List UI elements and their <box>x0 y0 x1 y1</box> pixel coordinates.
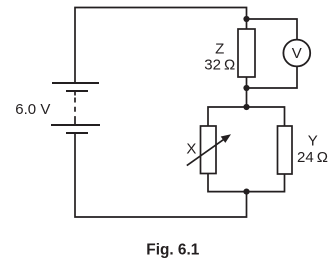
battery cell 2 short plate <box>66 132 88 134</box>
wire voltmeter bottom branch <box>247 66 298 88</box>
node junction dot voltmeter bottom <box>243 85 249 91</box>
battery cell 2 long plate <box>51 124 100 126</box>
svg-text:Y: Y <box>308 133 318 150</box>
wire junction to bottom rail <box>75 134 247 218</box>
svg-text:6.0 V: 6.0 V <box>15 101 50 118</box>
resistor Z <box>238 29 255 77</box>
svg-text:Z: Z <box>215 40 224 57</box>
battery cell 1 long plate <box>52 82 99 84</box>
svg-text:32 Ω: 32 Ω <box>204 57 235 74</box>
wire top rail <box>75 8 247 84</box>
node junction dot parallel bottom <box>243 189 249 195</box>
battery B1 6.0 V <box>51 83 100 133</box>
wire Z to parallel section <box>246 77 248 107</box>
svg-text:Fig. 6.1: Fig. 6.1 <box>146 242 199 259</box>
voltmeter V1 <box>283 40 310 67</box>
node junction dot parallel top <box>243 104 249 110</box>
wire voltmeter top branch <box>247 19 298 40</box>
wire parallel bottom rail <box>208 174 285 192</box>
battery dashed link <box>74 98 76 121</box>
node junction dot top <box>243 16 249 22</box>
variable resistor arrow <box>187 134 231 165</box>
battery cell 1 short plate <box>66 90 88 92</box>
battery cell link tick top <box>74 91 76 96</box>
svg-text:V: V <box>292 45 302 62</box>
battery cell link tick bottom <box>74 120 76 125</box>
svg-text:24 Ω: 24 Ω <box>297 149 328 166</box>
svg-text:X: X <box>186 140 196 157</box>
wire parallel top rail <box>208 107 285 126</box>
resistor X (variable) <box>201 126 217 174</box>
resistor Y <box>278 126 293 174</box>
